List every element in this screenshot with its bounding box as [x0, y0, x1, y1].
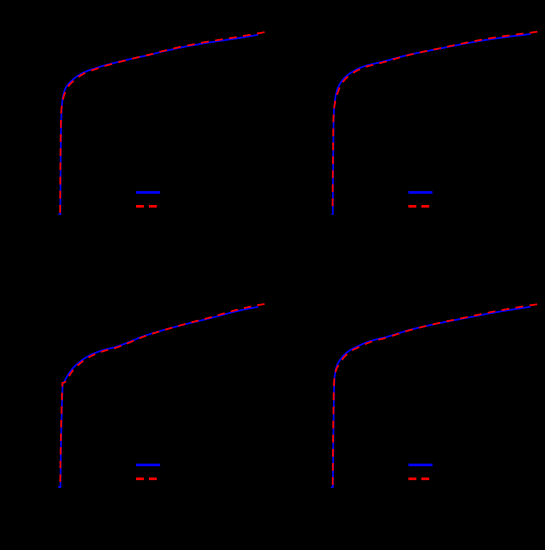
red dashed curve, subplot-2 (top-right)	[333, 32, 538, 211]
legend red dashed line sample, subplot 4	[408, 477, 432, 480]
blue solid curve, subplot-3 (bottom-left)	[58, 307, 258, 487]
legend red dashed line sample, subplot 2	[408, 205, 432, 208]
red dashed curve, subplot-3 (bottom-left)	[60, 304, 264, 485]
legend blue solid line sample, subplot 4	[408, 464, 432, 467]
blue solid curve, subplot-2 (top-right)	[332, 34, 531, 214]
legend blue solid line sample, subplot 2	[408, 191, 432, 194]
legend blue solid line sample, subplot 1	[136, 191, 160, 194]
legend blue solid line sample, subplot 3	[136, 464, 160, 467]
blue solid curve, subplot-4 (bottom-right)	[331, 307, 531, 487]
legend red dashed line sample, subplot 3	[136, 477, 160, 480]
red dashed curve, subplot-4 (bottom-right)	[333, 304, 537, 487]
red dashed curve, subplot-1 (top-left)	[60, 32, 265, 214]
blue solid curve, subplot-1 (top-left)	[58, 35, 258, 214]
legend red dashed line sample, subplot 1	[136, 205, 160, 208]
